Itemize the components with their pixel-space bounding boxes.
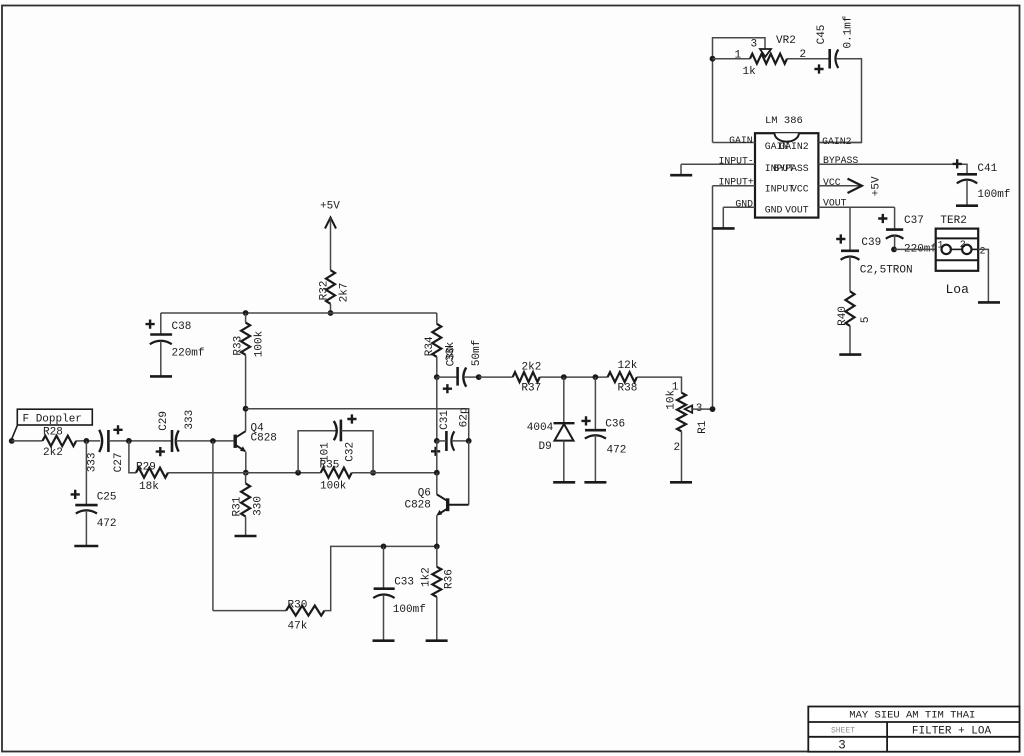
svg-text:C38: C38 [172, 321, 192, 333]
svg-text:BYPASS: BYPASS [773, 163, 808, 174]
wire to TER2 terminal [894, 248, 942, 250]
svg-text:R29: R29 [136, 461, 156, 473]
node C30 right junction [476, 374, 482, 380]
ground at TER2 [978, 301, 1000, 304]
ground at C25 [74, 510, 98, 546]
label Loa [946, 282, 970, 297]
node C30 left junction [434, 374, 440, 380]
svg-text:C33: C33 [394, 577, 414, 589]
svg-text:12k: 12k [618, 360, 638, 372]
svg-text:VCC: VCC [823, 177, 841, 188]
svg-text:10k: 10k [666, 390, 678, 410]
pin GND wire [723, 198, 755, 209]
resistor R31 330 [231, 473, 264, 517]
svg-text:VOUT: VOUT [785, 204, 809, 215]
wire Q4 collector [245, 409, 247, 432]
ground at C33 [373, 595, 395, 641]
svg-text:2k2: 2k2 [43, 447, 63, 459]
ground at GND pin [713, 207, 735, 228]
svg-text:C828: C828 [251, 432, 277, 444]
svg-text:2: 2 [674, 442, 681, 454]
title block table [808, 707, 1019, 752]
node Q6 collector branch junction [434, 470, 440, 476]
svg-text:2k2: 2k2 [522, 361, 542, 373]
svg-text:C2,5TRON: C2,5TRON [860, 264, 913, 276]
node D9 junction [561, 374, 567, 380]
wire down to Q6 [436, 473, 438, 495]
label SHEET [831, 726, 855, 735]
svg-text:1k2: 1k2 [421, 567, 433, 587]
svg-text:R28: R28 [43, 426, 63, 438]
ground at R1 [670, 431, 692, 482]
svg-text:C36: C36 [605, 419, 625, 431]
svg-text:VOUT: VOUT [823, 198, 847, 209]
power +5V arrow [320, 201, 340, 271]
pin GAIN2 wire [818, 136, 861, 147]
svg-text:FILTER + LOA: FILTER + LOA [912, 726, 992, 738]
wire R37 to R38 [540, 376, 608, 378]
svg-text:TER2: TER2 [940, 215, 966, 227]
label C2,5TRON [860, 264, 913, 276]
potentiometer VR2 1k [735, 35, 807, 78]
node C36 junction [593, 374, 599, 380]
svg-text:2: 2 [980, 247, 986, 258]
potentiometer R1 10k [666, 382, 709, 454]
svg-text:R37: R37 [521, 382, 541, 394]
svg-text:R1: R1 [697, 420, 709, 434]
svg-text:R32: R32 [318, 281, 330, 301]
resistor R36 1k2 [421, 546, 456, 597]
transistor Q4 C828 [235, 423, 277, 452]
svg-text:INPUT: INPUT [765, 184, 795, 195]
svg-text:2: 2 [960, 240, 966, 251]
svg-text:18k: 18k [139, 481, 159, 493]
wire VOUT to C39 branch [849, 207, 851, 251]
svg-text:4004: 4004 [527, 422, 554, 434]
wire INPUT+ down to R1 wiper node [712, 186, 714, 409]
svg-text:C45: C45 [816, 25, 828, 45]
svg-text:R36: R36 [443, 569, 455, 589]
diode D9 4004 [527, 377, 575, 453]
wire C31 node to Q6 base [468, 441, 470, 505]
node VR2 pin1 junction [710, 56, 716, 62]
node R33 rail junction [243, 310, 249, 316]
capacitor C45 0.1mf [814, 15, 854, 73]
op-amp U1 LM 386 body [755, 115, 818, 218]
pin VOUT wire [818, 198, 894, 209]
svg-text:472: 472 [97, 518, 117, 530]
wire to R30 [213, 610, 286, 612]
wire R34 node down to C31 [436, 377, 438, 441]
node Q4 base junction [210, 438, 216, 444]
node C25 junction [84, 438, 90, 444]
svg-text:3: 3 [751, 39, 758, 51]
transistor Q6 C828 [404, 488, 468, 516]
capacitor C25 472 [71, 490, 117, 530]
svg-text:SHEET: SHEET [831, 726, 855, 735]
svg-text:333: 333 [184, 410, 196, 430]
label F Doppler callout [12, 409, 93, 439]
node R35 left junction [295, 470, 301, 476]
wire R34 to C30 node [436, 357, 438, 377]
ground at C41 [956, 180, 978, 206]
svg-text:R31: R31 [231, 496, 243, 516]
capacitor C38 220mf [146, 313, 205, 359]
wire C25 branch [85, 441, 87, 505]
pin VCC arrow to +5V [818, 176, 882, 196]
node R1 wiper junction [710, 406, 716, 412]
wire TER2 to ground [978, 249, 988, 302]
sheet number 3 [838, 739, 846, 753]
title FILTER + LOA [912, 726, 992, 738]
wire R1 wiper to INPUT+ line [692, 408, 712, 410]
svg-text:1k: 1k [743, 66, 757, 78]
svg-text:GND: GND [735, 198, 753, 209]
node R29 branch junction [126, 438, 132, 444]
resistor R30 47k [286, 600, 324, 633]
svg-text:333: 333 [86, 452, 98, 472]
ground at C38 [150, 341, 172, 377]
wire C45 to GAIN2 pin [818, 59, 861, 143]
capacitor C31 62p [431, 407, 470, 455]
svg-text:F Doppler: F Doppler [23, 413, 82, 425]
node R35 right junction [370, 470, 376, 476]
wire R29 to R35 [168, 472, 321, 474]
title text MAY SIEU AM TIM THAI [849, 710, 975, 722]
resistor R37 2k2 [513, 361, 542, 394]
resistor R38 12k [608, 360, 638, 394]
wire C32 loop left [298, 431, 336, 473]
svg-text:C25: C25 [97, 492, 117, 504]
svg-text:C31: C31 [439, 410, 451, 430]
svg-text:100k: 100k [254, 330, 266, 357]
svg-text:R40: R40 [837, 306, 849, 326]
svg-text:Q6: Q6 [418, 488, 431, 500]
resistor R32 2k7 [318, 270, 350, 304]
resistor R29 18k [136, 461, 168, 493]
svg-text:Loa: Loa [946, 282, 970, 297]
capacitor C37 220mf [878, 214, 937, 255]
svg-text:INPUT+: INPUT+ [719, 177, 754, 188]
svg-text:GAIN2: GAIN2 [822, 136, 852, 147]
ground at D9 [553, 441, 575, 483]
svg-text:47k: 47k [288, 620, 308, 632]
wire VR2 feedback loop top-left [713, 38, 766, 143]
svg-text:R30: R30 [288, 600, 308, 612]
node input terminal [9, 438, 15, 444]
node C31 right junction [466, 438, 472, 444]
svg-text:100mf: 100mf [977, 189, 1010, 201]
wire C30 right [464, 376, 479, 378]
resistor R40 5 [837, 256, 872, 326]
svg-text:GND: GND [765, 204, 783, 215]
wire Q4 base node down [212, 441, 214, 611]
svg-text:2k7: 2k7 [338, 283, 350, 303]
node C31 left junction [434, 438, 440, 444]
ground at INPUT- [670, 164, 692, 175]
node R32 rail junction [328, 310, 334, 316]
svg-text:INPUT-: INPUT- [719, 156, 754, 167]
svg-text:5: 5 [860, 316, 872, 323]
svg-text:MAY SIEU AM TIM THAI: MAY SIEU AM TIM THAI [849, 710, 975, 722]
wire C29 node down to R29 [129, 441, 136, 473]
wire Q6 emitter down [436, 515, 438, 546]
svg-text:+5V: +5V [320, 201, 340, 213]
wire collector line to C31 column [246, 409, 469, 441]
capacitor C39 220mf [836, 234, 881, 259]
svg-text:GAIN2: GAIN2 [779, 141, 809, 152]
svg-text:50mf: 50mf [471, 340, 483, 366]
pin labels inside LM 386 right column [773, 141, 808, 215]
pin labels inside LM 386 left column [765, 141, 795, 215]
wire to R37 [479, 376, 513, 378]
svg-text:R33: R33 [233, 336, 245, 356]
wire C31 left stub [437, 440, 447, 442]
node Q4 emitter junction [243, 470, 249, 476]
node C33 junction [381, 544, 387, 550]
wire VR2 pin1 [713, 58, 751, 60]
pin BYPASS wire to C41 [818, 155, 967, 174]
wire R33 to Q4 collector node [245, 355, 247, 409]
capacitor C29 333 [156, 410, 196, 456]
wire R35 line to Q6 collector [436, 441, 438, 473]
resistor R34 33k [424, 313, 457, 366]
node Q4 collector junction [243, 406, 249, 412]
svg-text:100mf: 100mf [393, 604, 426, 616]
wire R30 up to feedback line [324, 546, 436, 610]
wire R35 to Q6 column [352, 472, 437, 474]
svg-text:C27: C27 [113, 452, 125, 472]
wire R32 to rail [330, 304, 332, 313]
ground at R36 [426, 597, 448, 641]
wire VR2 pin2 to C45 [787, 58, 830, 60]
svg-text:GAIN: GAIN [729, 135, 753, 146]
svg-text:220mf: 220mf [172, 347, 205, 359]
svg-text:101: 101 [320, 442, 332, 462]
svg-text:472: 472 [607, 445, 627, 457]
capacitor C33 100mf [373, 546, 426, 616]
pin INPUT- wire [681, 156, 755, 167]
svg-text:R38: R38 [618, 382, 638, 394]
wire input to R28 [12, 440, 43, 442]
svg-text:D9: D9 [539, 441, 552, 453]
pin INPUT+ wire [713, 177, 756, 188]
node R36 junction [434, 544, 440, 550]
pin GAIN wire [713, 135, 756, 146]
svg-text:C828: C828 [404, 500, 430, 512]
ground at R40 [839, 326, 861, 355]
svg-text:BYPASS: BYPASS [823, 155, 858, 166]
svg-text:C30: C30 [445, 347, 457, 367]
ground at C36 [584, 435, 606, 482]
wire R28 to C27 [76, 440, 100, 442]
capacitor C32 101 [320, 414, 357, 462]
svg-text:0.1mf: 0.1mf [842, 15, 854, 48]
capacitor C41 100mf [953, 159, 1011, 201]
wire supply rail [161, 312, 437, 314]
resistor R35 100k [320, 459, 352, 492]
svg-text:330: 330 [253, 496, 265, 516]
svg-text:VCC: VCC [791, 184, 809, 195]
svg-text:100k: 100k [320, 481, 347, 493]
wire C27 to C29 [108, 440, 172, 442]
svg-text:1: 1 [938, 241, 944, 252]
svg-text:LM 386: LM 386 [765, 115, 803, 127]
terminal TER2 [936, 215, 986, 271]
wire C31 right stub [452, 440, 469, 442]
capacitor C30 50mf [437, 340, 483, 394]
capacitor C27 333 [86, 425, 124, 472]
svg-text:C29: C29 [158, 411, 170, 431]
svg-text:+5V: +5V [871, 176, 883, 196]
wire R38 to R1 [637, 377, 682, 393]
svg-text:62p: 62p [458, 407, 470, 427]
svg-text:C41: C41 [977, 163, 997, 175]
resistor R33 100k [233, 313, 266, 357]
svg-text:1: 1 [735, 50, 742, 62]
wire Q4 emitter [245, 452, 247, 473]
ground at R31 [235, 517, 257, 537]
wire C32 loop right [341, 431, 373, 473]
resistor R28 2k2 [43, 426, 77, 459]
svg-text:C32: C32 [345, 442, 357, 462]
svg-text:3: 3 [838, 739, 846, 753]
svg-text:VR2: VR2 [776, 35, 796, 47]
wire VOUT corner to C37 [894, 207, 896, 229]
capacitor C36 472 [581, 377, 626, 456]
svg-text:R34: R34 [424, 336, 436, 356]
svg-text:C39: C39 [861, 237, 881, 249]
svg-text:C37: C37 [904, 215, 924, 227]
wire C29 to Q4 base [176, 440, 233, 442]
node C37 output junction [891, 235, 897, 252]
